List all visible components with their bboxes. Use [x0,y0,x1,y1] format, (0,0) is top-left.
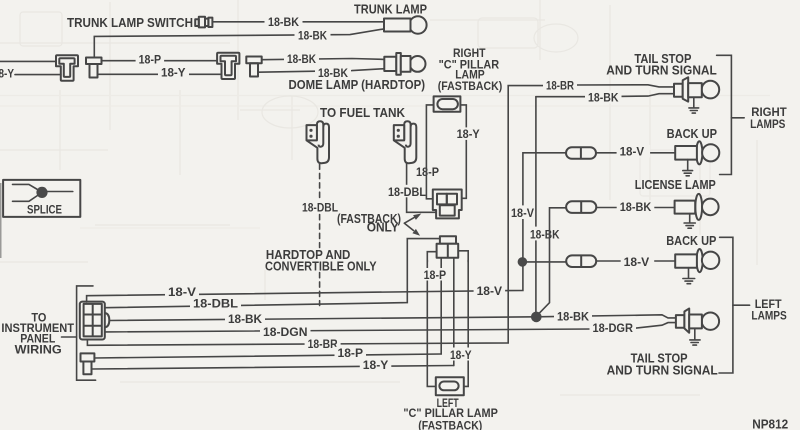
label 18-BK (bus riser) [527,227,563,242]
left C pillar connector [437,236,459,258]
svg-text:(FASTBACK): (FASTBACK) [418,419,482,430]
label 18-BR (right tail wire) [543,79,577,93]
svg-text:18-BK: 18-BK [298,30,328,42]
svg-text:BACK UP: BACK UP [666,234,716,248]
ground (left back up) [683,268,695,284]
label 18-BK dome top [284,53,319,66]
connector C (female, double outline) [217,53,239,79]
svg-text:18-V: 18-V [477,286,503,298]
wire into connector A (top) [0,60,56,62]
svg-text:18-BR: 18-BR [546,81,575,93]
wire 18-BK switch to trunk lamp [213,21,385,23]
left C pillar connector lead right [458,251,468,262]
instrument panel connector (6 cavity) [80,302,110,340]
right C pillar loop wire left (18-P) [426,105,433,199]
right C pillar lamp box [434,96,461,111]
svg-text:18-DBL: 18-DBL [302,203,338,215]
dome lamp bulb [384,53,425,75]
label 18-DGR [590,321,637,335]
left C pillar loop wire right [464,260,468,386]
right C pillar loop wire right (18-Y) [460,105,466,198]
wire fuel tank drop (right, 18-DBL) [407,163,437,213]
wire 18-BK dome bottom [258,69,384,73]
left C pillar connector lead left [427,252,436,262]
svg-text:18-DBL: 18-DBL [388,187,426,199]
svg-text:18-BK: 18-BK [268,17,300,29]
svg-text:(FASTBACK): (FASTBACK) [438,79,503,93]
svg-text:18-BK: 18-BK [530,229,560,241]
svg-text:LICENSE LAMP: LICENSE LAMP [635,178,716,192]
left C pillar pin wire 18-Y [453,258,455,366]
label 18-P (right C-pillar left loop) [413,165,442,179]
svg-text:18-BK: 18-BK [557,312,590,324]
label 18-Y [158,67,189,80]
left lamps bracket tick [733,304,750,306]
connector A (female, double outline) [56,55,78,80]
svg-text:18-P: 18-P [424,270,447,282]
fuel tank connector right [394,121,417,163]
right tail stop lamp [674,77,719,101]
right C pillar connector [433,190,462,219]
svg-text:CONVERTIBLE ONLY: CONVERTIBLE ONLY [265,259,377,273]
right back up lamp [675,141,719,164]
svg-text:18-Y: 18-Y [161,67,186,79]
splice symbol [13,184,73,201]
wire 18-BK dome top [262,59,385,60]
label 18-P [136,54,165,67]
junction dot (18-BK net) [531,312,542,323]
svg-text:18-V: 18-V [624,257,650,269]
splice legend box [3,180,80,217]
ground (right tail) [689,97,699,113]
svg-text:18-P: 18-P [139,55,162,67]
inline connector (left back up) [566,255,596,267]
label 18-Y (right C pillar) [454,127,483,141]
wire 18-BR (panel to right tail lamp) [87,86,546,346]
wire 18-BK riser to trunk lamp (from dome connector) [94,29,384,58]
svg-text:18-Y: 18-Y [450,350,472,362]
label 18-V (left back up) [621,254,655,269]
left C pillar loop wire left [427,260,436,386]
trunk lamp bulb [384,16,427,33]
svg-text:18-BK: 18-BK [287,54,317,66]
svg-text:18-Y: 18-Y [363,360,389,372]
svg-text:AND TURN SIGNAL: AND TURN SIGNAL [607,364,718,378]
left C pillar pin wire 18-P [440,258,442,354]
svg-text:TO FUEL TANK: TO FUEL TANK [320,106,405,120]
label 18-BK (left tail wire) [554,310,592,324]
label 18-P (left C pillar) [421,268,450,282]
wire 18-P (panel to left C pillar) [94,354,441,358]
wire 18-DGN / 18-DGR (panel to left tail lamp) [105,323,676,332]
label 18-V (mid) [474,284,506,298]
label 18-BK dome bottom [315,67,351,80]
svg-text:18-P: 18-P [416,167,439,179]
svg-text:18-BK: 18-BK [620,202,652,214]
label 18-BK (panel) [225,312,265,326]
instrument panel bracket [77,286,96,380]
label 18-DBL (panel) [190,297,241,311]
wire 18-BK (panel to left tail lamp) [109,315,676,321]
svg-text:18-BK: 18-BK [228,314,263,326]
wire 18-V to left back up lamp [596,260,675,262]
svg-text:18-V: 18-V [620,147,645,159]
label 18-DBL (fuel drop) [385,185,429,199]
label 18-Y (left C pillar riser) [447,348,475,362]
label 18-Y (panel) [360,359,392,372]
ground (right back up) [683,160,693,176]
label 18-DGN [260,325,311,339]
wire 18-Y into connector A (bottom) [15,74,61,76]
svg-text:LAMPS: LAMPS [751,309,786,323]
wire 18-BK (right tail lamp lower) [536,94,674,97]
svg-text:LAMPS: LAMPS [750,117,785,131]
wire from 18-V junction to left back up [522,261,566,263]
svg-text:WIRING: WIRING [15,343,62,357]
vertical 18-BK bus (right tail to junction) [535,97,537,317]
svg-text:ONLY: ONLY [367,221,400,235]
connector D (male plug) [246,57,261,77]
fuel tank connector left [307,121,330,163]
svg-text:18-V: 18-V [511,208,534,220]
connector B (male plug) [86,58,102,78]
svg-text:18-P: 18-P [338,348,364,360]
label 18-BR (panel) [305,337,341,351]
ground (license) [684,214,695,229]
svg-text:BACK UP: BACK UP [667,127,717,141]
junction dot (18-V net) [518,257,528,267]
label tick [62,336,77,338]
svg-text:SPLICE: SPLICE [27,204,62,216]
label 18-BK (license) [617,200,655,214]
svg-text:18-BR: 18-BR [308,339,339,351]
ground (left tail) [690,328,700,345]
label 18-BK (right tail) [585,91,622,105]
label 18-V (panel) [165,285,199,299]
dashed wire 18-DBL (hardtop dome feed) [319,164,321,199]
inline connector (right back up) [566,147,596,159]
left lamps bracket [719,237,733,373]
wire 18-P between B and C [102,60,218,62]
arrow to upper connector [404,214,421,224]
wire 18-Y between B and C [98,73,222,75]
svg-text:18-DGN: 18-DGN [263,327,308,339]
svg-text:18-BK: 18-BK [588,93,619,105]
label 18-DBL on dashed wire [299,200,341,215]
right lamps bracket [717,55,732,174]
svg-text:18-DBL: 18-DBL [193,299,238,311]
wire 18-DBL (panel to fuel drop) [105,239,440,308]
svg-text:8-Y: 8-Y [0,69,14,81]
label 18-BK (switch wire) [265,16,303,29]
svg-text:TRUNK LAMP: TRUNK LAMP [354,3,427,17]
license lamp [675,194,719,220]
arrow to lower connector [404,223,420,236]
wire 18-BK to license lamp [596,207,674,209]
svg-text:AND TURN SIGNAL: AND TURN SIGNAL [606,64,717,78]
trunk lamp switch symbol [195,17,212,28]
wire 18-V (panel to back-up lamps) [87,153,567,302]
instrument panel plug (2nd connector) [81,353,95,374]
left tail stop lamp [676,309,719,333]
label 18-V (right back up wire) [617,145,651,159]
left back up lamp [675,249,719,272]
svg-text:TRUNK LAMP SWITCH: TRUNK LAMP SWITCH [67,16,193,30]
label 18-BK (second trunk wire) [295,30,331,43]
right lamps bracket tick [731,117,744,119]
svg-text:NP812: NP812 [752,417,788,430]
inline connector (license) [566,201,596,213]
left C pillar lamp box [436,377,464,395]
svg-text:DOME LAMP (HARDTOP): DOME LAMP (HARDTOP) [289,78,426,92]
label 18-V (riser) [508,205,537,220]
label 18-P (panel) [335,347,367,360]
wire 18-Y (panel to left C pillar) [92,366,454,370]
wire license lamp (18-BK drop to junction) [538,208,566,315]
svg-text:18-DGR: 18-DGR [593,323,634,335]
svg-text:18-Y: 18-Y [457,129,480,141]
